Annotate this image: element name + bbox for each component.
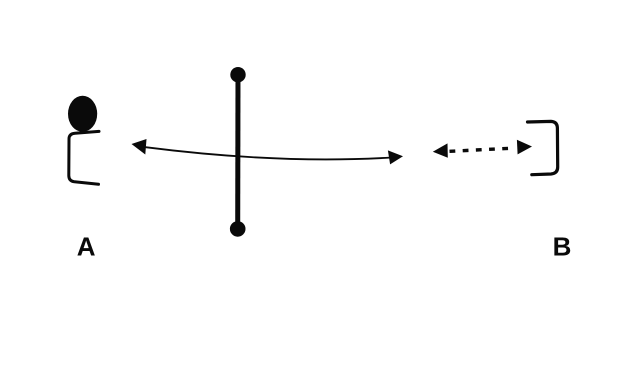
svg-text:A: A (77, 232, 96, 262)
dashed arrow left head (433, 143, 448, 157)
curved arrow right head (388, 150, 403, 164)
svg-text:B: B (553, 232, 572, 262)
barrier top dot (230, 67, 245, 82)
dashed arrow right head (517, 140, 532, 155)
person A body bracket (69, 131, 99, 184)
dashed arrow shaft (450, 148, 515, 151)
B bracket (528, 121, 558, 174)
barrier bottom dot (230, 221, 246, 237)
person A head (68, 96, 97, 132)
curved arrow left head (132, 139, 147, 155)
barrier bar (235, 75, 240, 229)
curved arrow shaft (146, 147, 391, 159)
